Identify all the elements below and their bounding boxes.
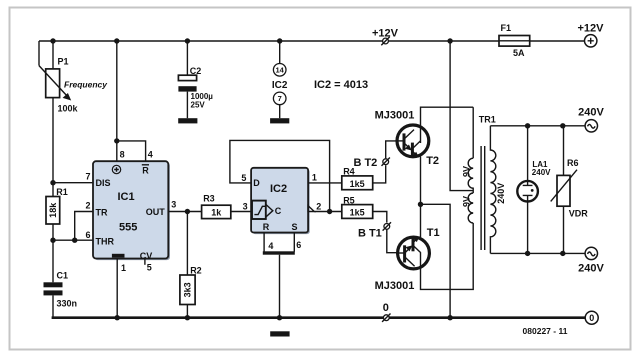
capacitor C1 xyxy=(44,240,78,318)
wire pin8 to pin4 reset tie xyxy=(114,138,146,161)
svg-text:9V: 9V xyxy=(462,166,472,177)
svg-text:1: 1 xyxy=(121,263,126,273)
varistor R6 VDR xyxy=(551,126,589,254)
secondary winding 240V xyxy=(490,126,495,254)
svg-text:240V: 240V xyxy=(578,263,604,275)
svg-text:R3: R3 xyxy=(203,194,215,204)
svg-text:6: 6 xyxy=(296,240,301,250)
svg-text:C1: C1 xyxy=(57,271,69,281)
svg-text:100k: 100k xyxy=(58,104,79,114)
svg-text:240V: 240V xyxy=(532,168,551,177)
svg-text:F1: F1 xyxy=(501,23,512,33)
wire T2 emitter to junction xyxy=(420,157,422,205)
ground C2 xyxy=(178,118,197,123)
lamp LA1 xyxy=(517,126,551,254)
flip-flop IC2 4013 body xyxy=(251,168,310,234)
wire T1 collector to primary bottom xyxy=(421,223,474,289)
svg-text:R: R xyxy=(263,222,270,232)
svg-text:B T2: B T2 xyxy=(353,157,377,169)
wire CV pin5 stub xyxy=(144,259,146,265)
svg-text:3: 3 xyxy=(243,201,248,211)
svg-text:C2: C2 xyxy=(190,66,202,76)
wire THR pin6 xyxy=(53,239,93,241)
svg-text:25V: 25V xyxy=(191,101,206,110)
wire OUT pin3 xyxy=(168,209,201,214)
wire junction to ground rail xyxy=(421,204,453,320)
transformer TR1 xyxy=(462,107,506,253)
resistor R4 xyxy=(342,165,386,190)
svg-text:T1: T1 xyxy=(427,227,440,239)
svg-text:330n: 330n xyxy=(57,298,78,308)
svg-text:1k5: 1k5 xyxy=(350,208,365,218)
svg-text:2: 2 xyxy=(85,200,90,210)
wire T2 collector to primary top xyxy=(421,107,474,125)
svg-text:7: 7 xyxy=(278,94,282,103)
pin labels IC2 xyxy=(241,172,321,251)
node P1/R1/DIS junction xyxy=(50,180,55,185)
IC2 power pin 14 xyxy=(272,38,288,91)
svg-text:8: 8 xyxy=(120,149,125,159)
core xyxy=(481,146,485,250)
svg-text:IC2 = 4013: IC2 = 4013 xyxy=(314,79,368,91)
wire +12V to transformer center tap xyxy=(450,41,473,191)
svg-text:VDR: VDR xyxy=(569,209,589,219)
svg-text:TR: TR xyxy=(96,207,108,217)
terminal 240V top xyxy=(578,107,604,132)
wire top +12V rail xyxy=(39,40,584,42)
svg-text:+12V: +12V xyxy=(372,27,399,39)
svg-text:240V: 240V xyxy=(496,183,506,204)
wire secondary top rail xyxy=(490,123,585,128)
node emitter junction xyxy=(418,202,423,207)
svg-text:MJ3001: MJ3001 xyxy=(375,110,415,122)
node center-tap branch on +12V rail xyxy=(447,38,452,43)
clock input edge symbol pin3 C xyxy=(252,201,282,219)
transistor T2 MJ3001 xyxy=(375,110,439,168)
timer IC1 555 body xyxy=(93,161,170,261)
svg-text:TR1: TR1 xyxy=(479,114,496,124)
ground below rail at IC2 xyxy=(270,331,289,336)
svg-text:IC2: IC2 xyxy=(272,80,288,91)
terminal 0 right xyxy=(585,311,598,324)
svg-text:R5: R5 xyxy=(343,195,355,205)
connector B T2 xyxy=(353,141,396,169)
resistor R2 xyxy=(180,212,202,321)
note IC2 = 4013 xyxy=(314,79,368,91)
svg-text:D: D xyxy=(253,178,260,188)
svg-text:3: 3 xyxy=(171,199,176,209)
wire pin2 Qbar to R5 xyxy=(314,211,342,213)
wire IC2 pins 4 and 6 to ground xyxy=(263,233,295,321)
label circuit number 080227-11 xyxy=(523,326,568,336)
svg-text:1: 1 xyxy=(312,172,317,182)
svg-text:4: 4 xyxy=(268,241,273,251)
svg-text:+12V: +12V xyxy=(578,22,605,34)
wire secondary bottom rail xyxy=(490,251,585,256)
svg-text:1k: 1k xyxy=(211,208,222,218)
svg-text:5: 5 xyxy=(241,173,246,183)
svg-text:B T1: B T1 xyxy=(358,228,382,240)
svg-text:240V: 240V xyxy=(578,107,604,119)
svg-text:18k: 18k xyxy=(48,202,58,218)
svg-text:C: C xyxy=(275,206,282,216)
terminal +12V right xyxy=(578,22,605,47)
svg-text:R: R xyxy=(142,165,149,175)
wire feedback Q-bar to D xyxy=(230,140,332,214)
svg-text:4: 4 xyxy=(148,149,153,159)
terminal 240V bottom xyxy=(578,247,604,275)
svg-text:1k5: 1k5 xyxy=(350,179,365,189)
svg-text:5: 5 xyxy=(147,262,152,272)
svg-text:S: S xyxy=(291,222,297,232)
wire TR pin2 tie to THR xyxy=(72,212,93,243)
wire IC1 pin1 to ground rail xyxy=(115,259,120,321)
node R1/THR/C1 junction xyxy=(50,238,55,243)
svg-text:IC1: IC1 xyxy=(118,191,135,203)
svg-text:14: 14 xyxy=(276,66,285,75)
transistor T1 MJ3001 xyxy=(375,227,440,292)
connector B T1 xyxy=(358,222,398,253)
IC2 power pin 7 xyxy=(273,92,286,118)
fuse F1 xyxy=(499,23,530,58)
svg-text:555: 555 xyxy=(119,222,137,234)
connector +12V top xyxy=(372,27,399,45)
svg-text:2: 2 xyxy=(316,201,321,211)
primary top lead xyxy=(472,107,474,158)
resistor R3 xyxy=(202,194,252,219)
wire pin1 Q to R4 xyxy=(308,182,342,184)
inverter wedge pin2 xyxy=(308,206,314,212)
svg-text:6: 6 xyxy=(85,230,90,240)
pin labels IC1 xyxy=(85,149,176,273)
capacitor C2 electrolytic xyxy=(178,38,213,118)
svg-text:R1: R1 xyxy=(56,187,68,197)
svg-text:0: 0 xyxy=(589,313,594,323)
resistor R1 xyxy=(46,183,68,241)
svg-text:MJ3001: MJ3001 xyxy=(375,280,415,292)
svg-text:R6: R6 xyxy=(567,158,579,168)
svg-text:THR: THR xyxy=(96,236,115,246)
svg-text:0: 0 xyxy=(383,302,389,314)
wire junction to T1 emitter xyxy=(420,204,422,237)
svg-text:080227 - 11: 080227 - 11 xyxy=(523,326,568,336)
svg-text:OUT: OUT xyxy=(146,207,166,217)
primary winding top 9V xyxy=(468,158,473,193)
wire bottom 0V rail xyxy=(52,316,586,319)
svg-text:5A: 5A xyxy=(513,48,525,58)
svg-text:3k3: 3k3 xyxy=(182,282,192,297)
svg-text:IC2: IC2 xyxy=(270,183,287,195)
resistor R5 xyxy=(342,195,387,222)
svg-text:7: 7 xyxy=(85,171,90,181)
svg-text:DIS: DIS xyxy=(96,178,111,188)
svg-text:P1: P1 xyxy=(58,57,69,67)
svg-text:9V: 9V xyxy=(462,196,472,207)
potentiometer P1 xyxy=(39,41,108,183)
wire IC1 pin8 supply column xyxy=(114,38,119,161)
ground IC2 supply xyxy=(270,118,289,123)
svg-text:Frequency: Frequency xyxy=(64,79,108,89)
primary winding bottom 9V xyxy=(468,193,473,223)
svg-text:R2: R2 xyxy=(190,266,202,276)
connector 0 bottom xyxy=(382,302,390,322)
wire DIS pin7 xyxy=(53,182,93,184)
wire left branch to P1 wiper xyxy=(38,41,40,66)
svg-text:T2: T2 xyxy=(426,155,439,167)
svg-text:CV: CV xyxy=(140,251,153,261)
